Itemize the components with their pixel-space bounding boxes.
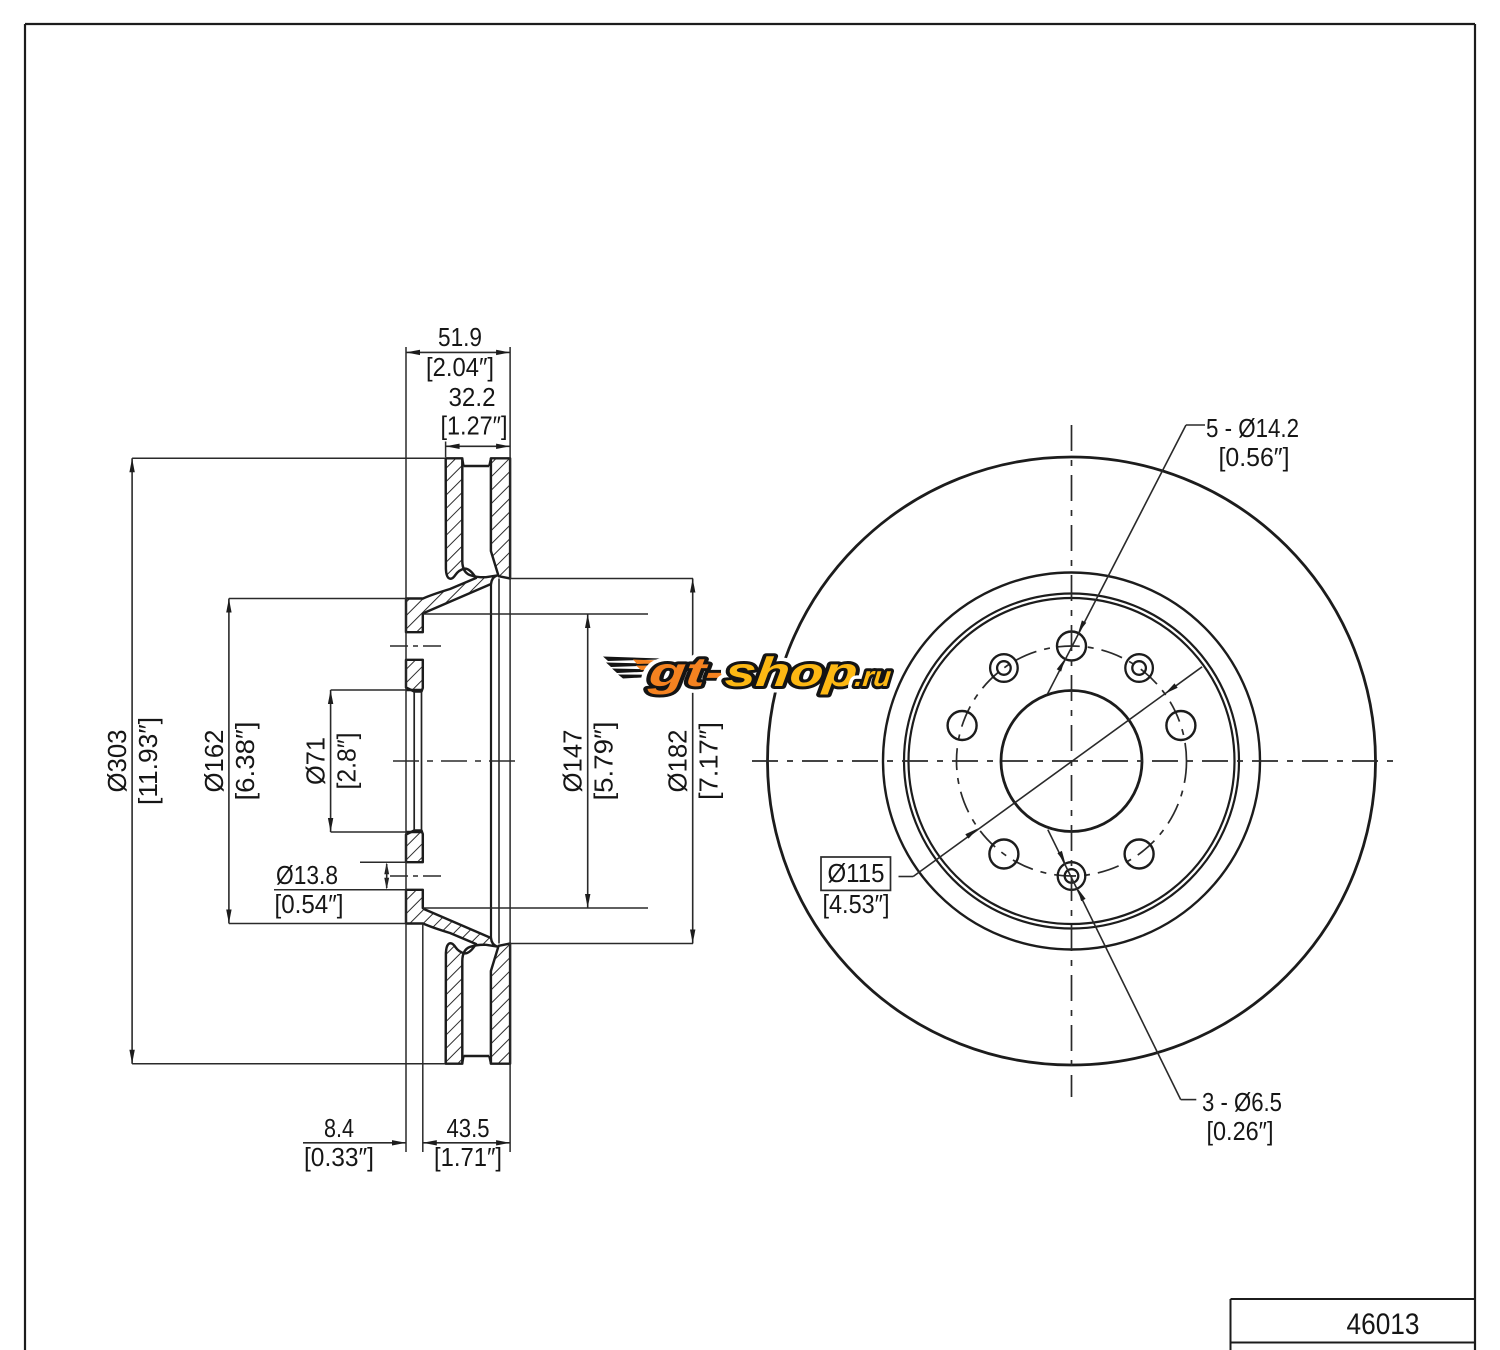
dimension 51.9 [2.04"] <box>406 322 510 1152</box>
hat pocket floor Ø147 line bottom <box>423 907 648 909</box>
front view: friction band inner edge circle <box>883 573 1260 950</box>
gt-shop.ru watermark logo <box>603 649 894 695</box>
front view vertical centerline <box>1071 425 1073 1097</box>
svg-text:[4.53″]: [4.53″] <box>823 889 890 919</box>
bolt hole Ø14.2 at 234° <box>989 840 1018 869</box>
svg-text:Ø13.8: Ø13.8 <box>276 860 338 890</box>
dimension Ø303 [11.93"] <box>102 458 445 1063</box>
svg-text:[0.54″]: [0.54″] <box>275 889 344 919</box>
bolt hole centerline (section, top) <box>390 645 441 647</box>
svg-text:[2.04″]: [2.04″] <box>426 352 494 382</box>
dimension Ø182 [7.17"] <box>663 579 724 944</box>
svg-text:[5.79″]: [5.79″] <box>589 722 619 801</box>
part number 46013 <box>1347 1308 1420 1341</box>
svg-text:[7.17″]: [7.17″] <box>694 722 724 800</box>
vent channel top bridge <box>462 458 491 466</box>
svg-text:3 - Ø6.5: 3 - Ø6.5 <box>1202 1087 1282 1117</box>
bolt hole centerline (section, bottom) <box>390 875 441 877</box>
svg-text:Ø71: Ø71 <box>301 737 331 785</box>
dimension Ø115 [4.53"] bolt circle <box>821 667 1202 919</box>
center bore Ø71 in section <box>406 688 423 835</box>
dimension Ø162 [6.38"] <box>199 599 406 924</box>
front view: outer circle Ø303 <box>768 457 1376 1065</box>
svg-text:[6.38″]: [6.38″] <box>230 722 260 801</box>
front view: center bore circle Ø71 <box>1001 691 1142 832</box>
hat interior fillet edge (projected) <box>498 579 500 944</box>
svg-text:gt-: gt- <box>646 649 728 695</box>
svg-text:Ø115: Ø115 <box>828 858 885 888</box>
section top: inboard friction plate + hat wall + flange (hatched) <box>406 458 497 632</box>
Ø182 extension line top <box>510 578 693 580</box>
svg-text:[1.27″]: [1.27″] <box>441 411 508 441</box>
dimension Ø147 [5.79"] <box>558 614 619 908</box>
svg-text:.ru: .ru <box>853 661 892 692</box>
title block <box>1231 1299 1476 1350</box>
dimension Ø13.8 [0.54"] (bolt hole dia) <box>274 860 406 919</box>
hat pocket end face (projected edge) <box>490 584 492 938</box>
section top: flange piece between bolt hole and bore (hatched) <box>406 660 423 692</box>
svg-text:Ø162: Ø162 <box>199 730 229 793</box>
svg-text:[0.56″]: [0.56″] <box>1219 442 1290 472</box>
callout 3 - Ø6.5 [0.26"] <box>1048 830 1282 1146</box>
svg-text:8.4: 8.4 <box>324 1113 354 1143</box>
svg-text:[0.33″]: [0.33″] <box>304 1142 374 1172</box>
svg-text:[11.93″]: [11.93″] <box>133 717 163 805</box>
Ø182 extension line bottom <box>510 943 693 945</box>
svg-text:Ø182: Ø182 <box>663 730 693 793</box>
dimension Ø71 [2.8"] <box>301 690 406 832</box>
svg-text:46013: 46013 <box>1347 1308 1420 1341</box>
svg-text:32.2: 32.2 <box>449 382 496 412</box>
vent channel bottom bridge <box>462 1056 491 1064</box>
section top: outboard friction plate (hatched) <box>491 458 510 578</box>
svg-text:51.9: 51.9 <box>438 322 482 352</box>
dimension 8.4 [0.33"] <box>303 924 423 1173</box>
svg-text:5 - Ø14.2: 5 - Ø14.2 <box>1206 413 1299 443</box>
front view: hat outer edge circle (inner of pair) <box>909 598 1235 924</box>
section bottom half (mirrored) <box>406 831 510 1064</box>
screw hole Ø6.5 with seat at 270° <box>1058 862 1086 890</box>
bolt hole Ø14.2 at 18° <box>1166 711 1195 740</box>
dimension 43.5 [1.71"] <box>423 1113 510 1172</box>
bolt hole Ø14.2 at 162° <box>948 711 977 740</box>
svg-text:[1.71″]: [1.71″] <box>434 1142 502 1172</box>
svg-text:[2.8″]: [2.8″] <box>332 733 362 790</box>
front view horizontal centerline <box>752 760 1395 762</box>
screw hole Ø6.5 with seat at 54° <box>1125 654 1153 682</box>
section axis centerline <box>393 760 518 762</box>
bolt hole Ø14.2 at 306° <box>1125 840 1154 869</box>
bolt hole Ø14.2 at 90° <box>1057 632 1086 661</box>
callout 5 - Ø14.2 [0.56"] <box>1048 413 1299 694</box>
dimension 32.2 [1.27"] <box>441 382 511 457</box>
front view: hat outer edge circle (outer of pair) <box>904 594 1239 929</box>
svg-text:shop: shop <box>723 649 860 695</box>
front view: bolt circle Ø115 (dashed) <box>957 646 1187 876</box>
svg-text:43.5: 43.5 <box>447 1113 490 1143</box>
hat pocket floor Ø147 line top <box>423 613 648 615</box>
screw hole Ø6.5 with seat at 126° <box>990 654 1018 682</box>
svg-text:Ø147: Ø147 <box>558 730 588 793</box>
svg-text:[0.26″]: [0.26″] <box>1207 1116 1274 1146</box>
svg-text:Ø303: Ø303 <box>102 730 132 793</box>
